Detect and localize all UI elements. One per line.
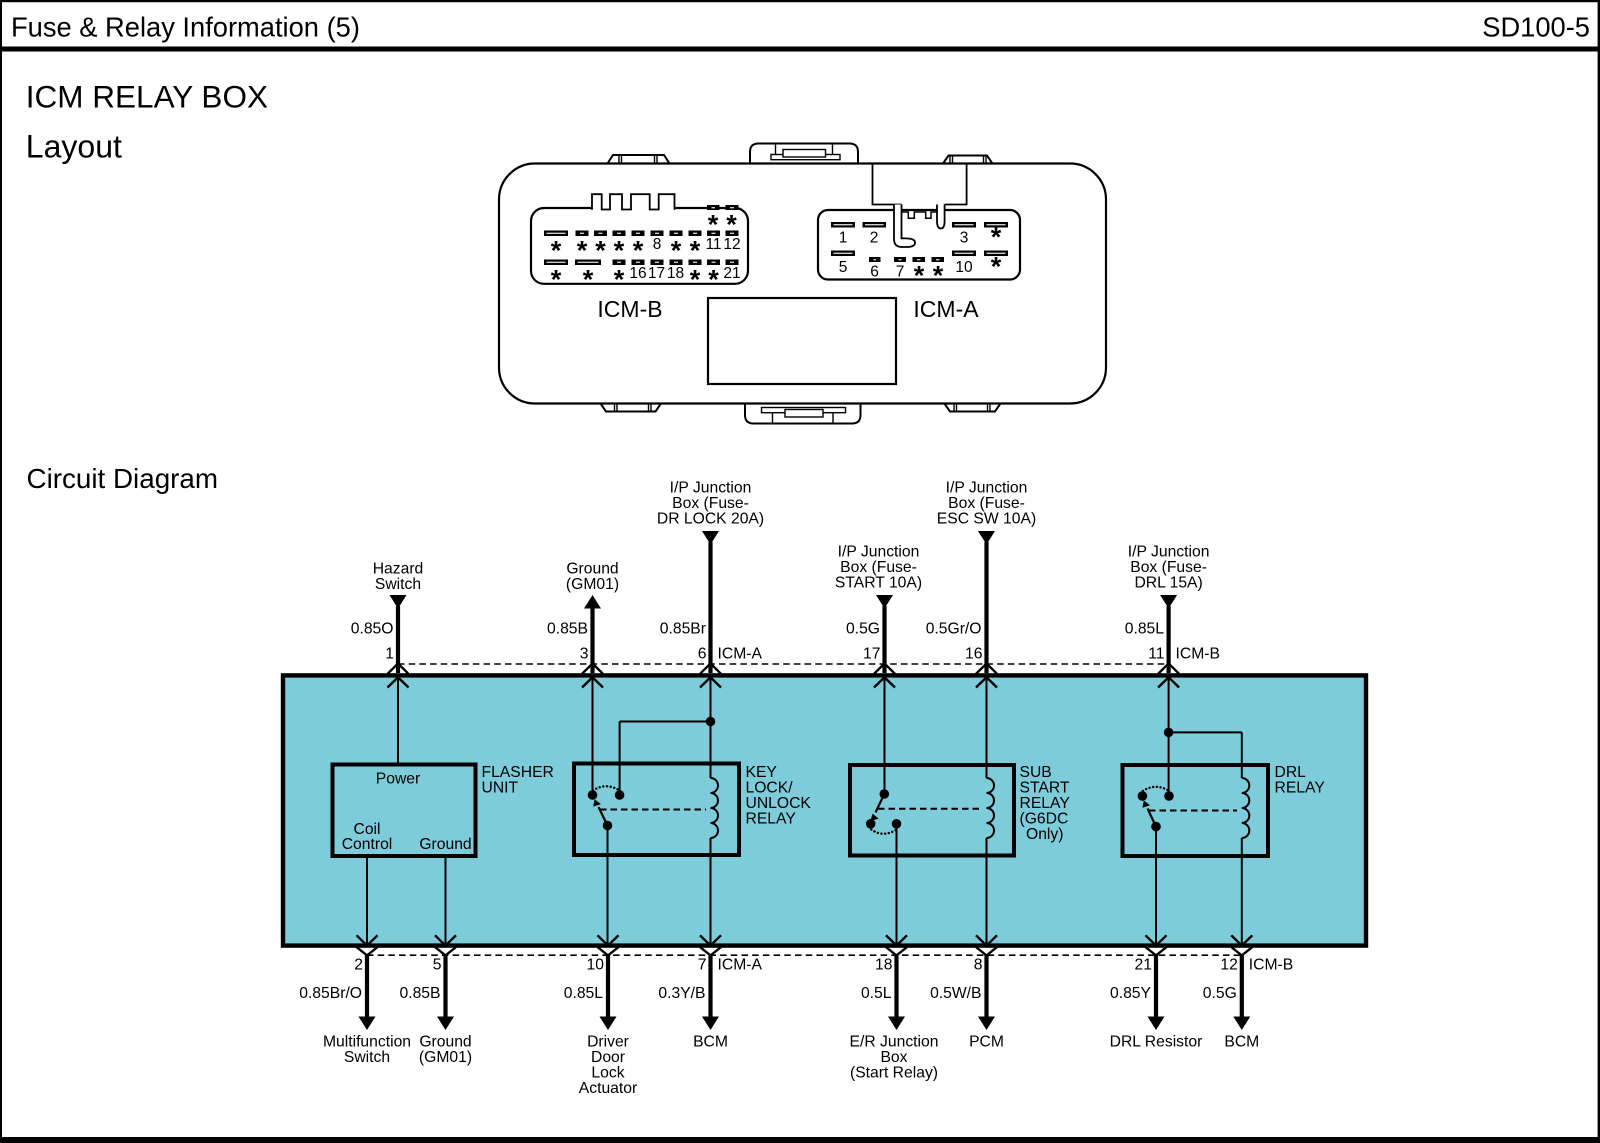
svg-text:12: 12: [723, 236, 740, 253]
svg-text:3: 3: [580, 646, 589, 663]
svg-text:7: 7: [698, 957, 707, 974]
svg-text:Actuator: Actuator: [579, 1080, 637, 1097]
svg-text:0.85L: 0.85L: [564, 985, 604, 1002]
svg-text:UNIT: UNIT: [482, 780, 519, 797]
svg-text:I/P Junction: I/P Junction: [838, 544, 920, 561]
svg-text:11: 11: [705, 236, 721, 253]
svg-text:7: 7: [896, 264, 905, 281]
svg-text:2: 2: [354, 957, 363, 974]
svg-text:ICM-B: ICM-B: [1176, 646, 1220, 663]
svg-text:PCM: PCM: [969, 1034, 1004, 1051]
svg-text:I/P Junction: I/P Junction: [1128, 544, 1210, 561]
svg-text:(GM01): (GM01): [566, 576, 619, 593]
svg-text:SUB: SUB: [1020, 764, 1052, 781]
svg-text:*: *: [614, 265, 625, 295]
svg-text:(GM01): (GM01): [419, 1049, 472, 1066]
svg-text:Ground: Ground: [419, 836, 471, 853]
svg-text:ICM-B: ICM-B: [1249, 957, 1293, 974]
svg-text:ICM-A: ICM-A: [718, 957, 763, 974]
svg-text:Box (Fuse-: Box (Fuse-: [948, 495, 1025, 512]
svg-text:I/P Junction: I/P Junction: [670, 480, 752, 497]
svg-text:11: 11: [1148, 646, 1164, 663]
svg-text:3: 3: [960, 230, 969, 247]
svg-text:Box (Fuse-: Box (Fuse-: [672, 495, 749, 512]
svg-text:16: 16: [965, 646, 983, 663]
svg-text:*: *: [583, 265, 594, 295]
svg-text:Box (Fuse-: Box (Fuse-: [840, 559, 917, 576]
svg-text:*: *: [933, 261, 944, 291]
svg-text:*: *: [551, 265, 562, 295]
svg-text:DRL Resistor: DRL Resistor: [1110, 1034, 1203, 1051]
svg-text:6: 6: [698, 646, 707, 663]
svg-text:Switch: Switch: [375, 576, 421, 593]
svg-text:0.85Y: 0.85Y: [1110, 985, 1152, 1002]
svg-text:6: 6: [870, 264, 879, 281]
svg-text:1: 1: [385, 646, 394, 663]
svg-text:START: START: [1020, 780, 1070, 797]
svg-text:*: *: [914, 261, 925, 291]
svg-text:ICM-B: ICM-B: [597, 296, 662, 322]
svg-text:0.5Gr/O: 0.5Gr/O: [926, 621, 982, 638]
svg-text:DRL: DRL: [1275, 764, 1307, 781]
svg-text:(G6DC: (G6DC: [1020, 811, 1069, 828]
svg-text:18: 18: [667, 265, 684, 282]
svg-text:START 10A): START 10A): [835, 575, 922, 592]
svg-text:ICM-A: ICM-A: [913, 296, 979, 322]
svg-text:Ground: Ground: [566, 561, 618, 578]
svg-text:0.85Br: 0.85Br: [660, 621, 706, 638]
svg-text:*: *: [690, 265, 701, 295]
svg-text:ICM RELAY BOX: ICM RELAY BOX: [26, 79, 268, 115]
svg-text:UNLOCK: UNLOCK: [746, 795, 812, 812]
svg-text:(Start Relay): (Start Relay): [850, 1065, 938, 1082]
svg-text:0.3Y/B: 0.3Y/B: [658, 985, 705, 1002]
svg-text:17: 17: [648, 265, 665, 282]
svg-text:Box: Box: [880, 1049, 907, 1066]
svg-text:16: 16: [629, 265, 646, 282]
svg-text:Lock: Lock: [591, 1065, 624, 1082]
svg-text:0.5G: 0.5G: [1203, 985, 1237, 1002]
svg-text:8: 8: [974, 957, 983, 974]
svg-text:Switch: Switch: [344, 1049, 390, 1066]
svg-text:BCM: BCM: [693, 1034, 728, 1051]
svg-text:BCM: BCM: [1224, 1034, 1259, 1051]
svg-text:LOCK/: LOCK/: [746, 780, 794, 797]
svg-text:DR LOCK 20A): DR LOCK 20A): [657, 511, 764, 528]
svg-text:8: 8: [653, 236, 662, 253]
svg-text:Ground: Ground: [419, 1034, 471, 1051]
svg-text:ICM-A: ICM-A: [718, 646, 763, 663]
svg-text:*: *: [708, 265, 719, 295]
svg-text:RELAY: RELAY: [746, 811, 797, 828]
svg-text:0.5L: 0.5L: [861, 985, 892, 1002]
svg-text:Fuse & Relay Information (5): Fuse & Relay Information (5): [11, 12, 360, 43]
svg-text:2: 2: [870, 230, 879, 247]
svg-text:21: 21: [723, 265, 740, 282]
svg-text:10: 10: [955, 259, 973, 276]
svg-text:12: 12: [1220, 957, 1237, 974]
svg-text:SD100-5: SD100-5: [1482, 12, 1590, 43]
svg-text:Circuit Diagram: Circuit Diagram: [27, 463, 219, 494]
svg-text:*: *: [991, 252, 1002, 282]
svg-text:Hazard: Hazard: [373, 561, 424, 578]
svg-text:5: 5: [433, 957, 442, 974]
svg-text:0.85Br/O: 0.85Br/O: [299, 985, 362, 1002]
svg-text:0.5G: 0.5G: [846, 621, 880, 638]
svg-text:10: 10: [587, 957, 605, 974]
svg-text:RELAY: RELAY: [1020, 795, 1071, 812]
svg-text:1: 1: [839, 230, 848, 247]
svg-text:I/P Junction: I/P Junction: [946, 480, 1028, 497]
svg-text:Box (Fuse-: Box (Fuse-: [1130, 559, 1207, 576]
svg-text:Only): Only): [1026, 826, 1063, 843]
svg-text:Door: Door: [591, 1049, 625, 1066]
svg-text:*: *: [991, 222, 1002, 252]
svg-text:0.5W/B: 0.5W/B: [930, 985, 981, 1002]
svg-text:Driver: Driver: [587, 1034, 629, 1051]
svg-text:FLASHER: FLASHER: [482, 764, 554, 781]
svg-text:KEY: KEY: [746, 764, 778, 781]
svg-text:17: 17: [863, 646, 880, 663]
svg-text:0.85B: 0.85B: [547, 621, 588, 638]
svg-text:Layout: Layout: [26, 129, 122, 165]
svg-text:Power: Power: [376, 771, 420, 788]
svg-text:Multifunction: Multifunction: [323, 1034, 411, 1051]
svg-text:5: 5: [839, 259, 848, 276]
svg-text:RELAY: RELAY: [1275, 780, 1326, 797]
svg-text:0.85O: 0.85O: [351, 621, 394, 638]
svg-text:21: 21: [1135, 957, 1152, 974]
svg-text:0.85L: 0.85L: [1125, 621, 1165, 638]
svg-text:18: 18: [875, 957, 893, 974]
svg-text:E/R Junction: E/R Junction: [850, 1034, 939, 1051]
svg-text:0.85B: 0.85B: [400, 985, 441, 1002]
svg-text:DRL 15A): DRL 15A): [1134, 575, 1202, 592]
svg-text:ESC SW 10A): ESC SW 10A): [937, 511, 1036, 528]
svg-text:Control: Control: [342, 836, 393, 853]
